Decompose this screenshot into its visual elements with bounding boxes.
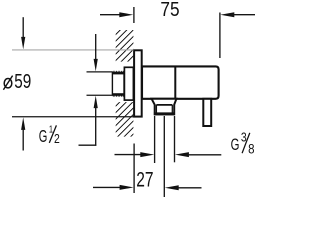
svg-text:27: 27 [136,168,153,192]
pin (valve stem) [203,99,211,126]
dim 27: right arrowhead [165,185,179,190]
svg-text:2: 2 [54,132,60,146]
svg-text:75: 75 [160,0,179,21]
spout inner right wall [171,105,173,114]
G3/8 text [231,130,255,157]
G1/2 leader upper line [95,34,97,61]
dim 27: left arrowhead [120,185,134,190]
G1/2 fraction slash [49,125,56,142]
G3/8 dim: left extension line [154,116,156,163]
valve body [142,66,219,98]
G3/8 dim: left tail [115,154,145,156]
G1/2 leader lower arrowhead [94,96,98,109]
G1/2 thread extension line bottom [87,94,113,96]
dim 75: right arrowhead [220,12,234,17]
svg-text:8: 8 [248,140,255,156]
dim ø59: top arrowhead [21,37,25,50]
G3/8 fraction slash [242,133,250,153]
thread bottom band [112,93,124,95]
dim ø59: bottom extension line [12,116,134,118]
G3/8 dim: right extension line [174,116,176,162]
G1/2 text [39,123,60,146]
wall upper hatched section [116,30,134,62]
thread serration top [112,72,123,74]
dim ø59: top arrow line [22,17,24,39]
dim 75: left arrowhead [119,12,133,17]
dim 27: left extension line [133,144,135,194]
body divider line [174,66,176,98]
dim ø59: top extension line (gray) [12,49,134,51]
dim 27: right tail [175,187,201,189]
thread serration bottom [112,94,123,96]
dim 27: left tail [93,186,124,188]
G3/8 dim: right arrowhead [175,152,189,157]
G3/8 dim: left arrowhead [140,152,154,157]
spout bottom thick band [154,112,175,115]
G1/2 leader lower line [95,105,97,146]
dim 75: left extension line [133,7,135,23]
flange (escutcheon) on wall face [134,50,142,116]
collar inside wall hole [124,67,133,100]
dim ø59: bottom arrow line [22,128,24,151]
dim ø59: bottom arrowhead [21,117,25,129]
G1/2 leader horizontal [79,144,97,146]
spout inner left wall [155,105,157,114]
outlet spout [152,99,177,115]
wall lower hatched section [116,102,134,137]
thread top band [112,72,124,74]
G1/2 thread extension line top [87,71,113,73]
dim 75: left tail [100,14,122,16]
dim ø59: text [4,79,12,88]
svg-text:G: G [231,135,240,154]
threaded inlet G1/2 [112,73,124,95]
G3/8 dim: right tail [186,154,222,156]
dim 75: right extension line [219,13,221,59]
dim 75: right tail [231,14,255,16]
svg-text:G: G [39,126,48,146]
spout inner roof [156,104,172,106]
svg-text:59: 59 [14,71,31,93]
G1/2 leader upper arrowhead [94,59,98,72]
dim 27: right extension line [163,116,165,197]
